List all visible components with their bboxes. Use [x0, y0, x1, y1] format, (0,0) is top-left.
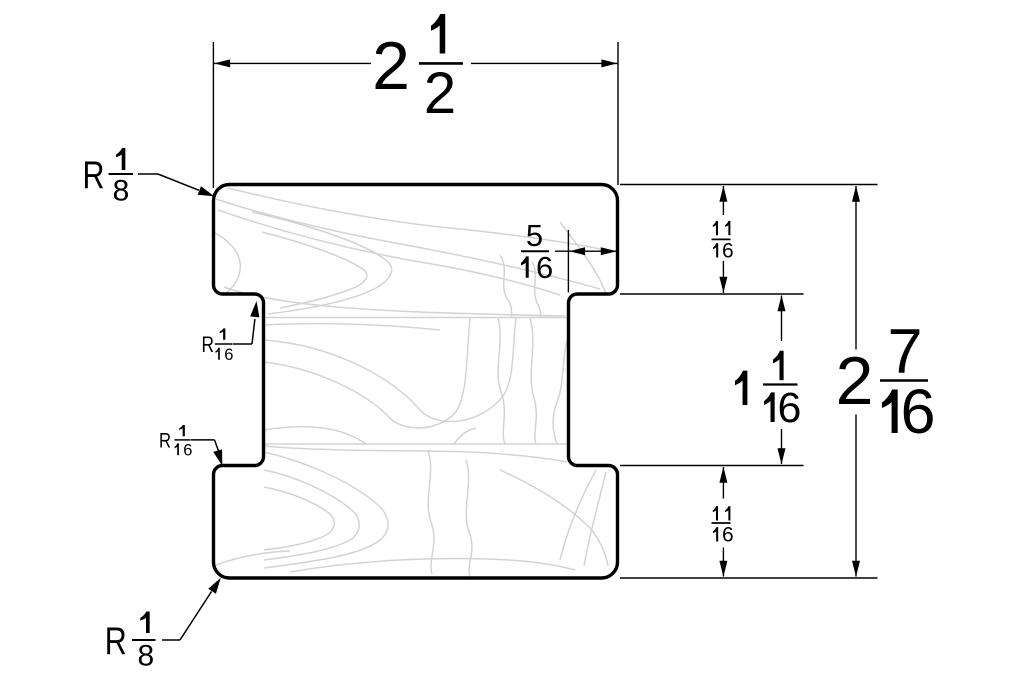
right ext notch top: [620, 293, 804, 295]
dim text 11/16 top: [712, 221, 734, 263]
grain band middle: [264, 324, 440, 330]
radius label R1/16 upper-notch: [202, 328, 234, 363]
svg-text:6: 6: [722, 524, 734, 547]
dim text 11/16 bottom: [712, 506, 734, 546]
arrowhead down (11/16 bottom dim): [719, 561, 727, 577]
arrowhead up (2 7/16 dim): [852, 186, 860, 202]
arrowhead down (1 1/16 dim): [778, 448, 786, 464]
profile outline: [214, 185, 618, 579]
svg-text:5: 5: [526, 218, 543, 253]
svg-text:2: 2: [424, 61, 456, 126]
wood grain: [215, 188, 614, 576]
svg-text:6: 6: [183, 441, 192, 459]
arrowhead down (2 7/16 dim): [852, 561, 860, 577]
dim 5/16 line: [555, 250, 617, 252]
grain band bottom: [264, 446, 567, 462]
arrowhead right (5/16 dim): [601, 247, 617, 255]
arrowhead down (11/16 top dim): [719, 277, 727, 293]
svg-text:R: R: [159, 430, 171, 453]
top width dim line: [214, 62, 371, 64]
svg-text:R: R: [202, 332, 215, 357]
leader R1/8 bottom-left: [162, 592, 212, 641]
dim text 2 1/2: [372, 14, 463, 126]
svg-text:R: R: [105, 620, 127, 663]
arrowhead up (11/16 top dim): [719, 186, 727, 202]
dim 11/16 bottom: [722, 467, 724, 499]
svg-text:2: 2: [836, 343, 874, 419]
top width extension right: [617, 42, 619, 185]
svg-text:8: 8: [137, 640, 154, 673]
leader R1/8 top-left: [138, 174, 199, 190]
svg-text:6: 6: [224, 346, 233, 364]
svg-text:R: R: [83, 154, 105, 197]
dimension lines thin: [213, 42, 877, 578]
svg-text:2: 2: [372, 28, 410, 104]
arrowhead left (5/16 dim): [569, 247, 585, 255]
top width extension left: [212, 42, 214, 188]
svg-text:6: 6: [901, 377, 936, 447]
right ext notch bottom: [620, 465, 804, 467]
radius label R1/8 bottom-left: [105, 612, 156, 673]
arrowhead up (11/16 bottom dim): [719, 467, 727, 483]
dim 2 7/16: [855, 186, 857, 350]
svg-text:8: 8: [113, 174, 130, 207]
svg-text:6: 6: [536, 250, 553, 285]
ext 5/16: [567, 230, 569, 293]
leader R1/16 upper-notch: [233, 319, 255, 344]
dim text 2 7/16: [836, 317, 936, 447]
dim 11/16 top: [722, 186, 724, 215]
dim text 5/16: [521, 218, 553, 285]
dim text 1 1/16: [735, 351, 801, 432]
grain band top: [228, 188, 614, 252]
svg-text:6: 6: [778, 384, 802, 432]
svg-text:6: 6: [722, 240, 734, 263]
dim 1 1/16: [781, 296, 783, 342]
leader R1/16 lower-notch: [191, 440, 219, 451]
grain seam lower: [264, 443, 568, 445]
radius label R1/8 top-left: [83, 148, 134, 207]
radius label R1/16 lower-notch: [159, 425, 192, 459]
grain seam upper: [264, 317, 568, 319]
arrowhead up (1 1/16 dim): [778, 295, 786, 311]
right ext top: [620, 184, 878, 186]
right ext bottom: [620, 577, 878, 579]
arrowhead left (2 1/2 dim): [214, 59, 230, 67]
arrowhead right (2 1/2 dim): [601, 59, 617, 67]
